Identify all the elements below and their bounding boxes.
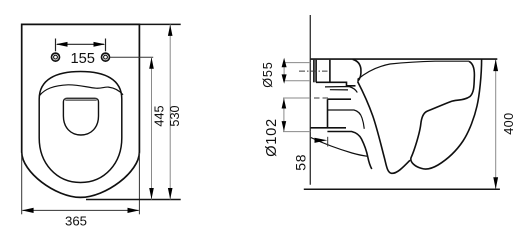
inlet boss inner vertical (329, 60, 331, 83)
dimension 155 (hole spacing) (56, 39, 106, 52)
svg-text:Ø102: Ø102 (264, 118, 280, 157)
mounting hole right (102, 53, 110, 61)
svg-text:58: 58 (292, 154, 308, 171)
seat lower edge line (357, 61, 469, 79)
dimension 58 (315, 137, 328, 147)
ceramic top line + 400 top extension (310, 58, 497, 60)
inlet boss right side / nose (353, 59, 361, 81)
530 top extension line (139, 23, 180, 25)
outlet pipe end vertical (327, 99, 329, 128)
svg-text:365: 365 (65, 214, 87, 229)
inner curve: seat bulge, pedestal, bottom dip, outer back edge (411, 59, 482, 169)
inlet centerline (dash-dot) (299, 70, 328, 72)
sump top shaded band (65, 99, 97, 101)
dimension Ø102 (283, 98, 310, 132)
outlet hidden top edge (dashed) (314, 97, 331, 99)
sump (inner bowl) outline (63, 98, 98, 135)
dimension Ø55 (283, 63, 310, 81)
seat/lid split wavy line (40, 85, 123, 96)
wall line (309, 15, 311, 185)
58 protrusion diagonal (311, 138, 368, 157)
dimension line 400 (495, 60, 497, 189)
inlet boss bottom (316, 82, 356, 86)
dimension line 530 (169, 24, 171, 199)
outlet pipe bottom (310, 127, 346, 129)
bottom extension line (445/530) (86, 199, 181, 201)
445 leader line from right hole (110, 56, 153, 58)
svg-text:155: 155 (70, 51, 95, 67)
mounting hole left (52, 53, 60, 61)
main lower outline: nose drop, trap dip, cusp (358, 82, 410, 174)
dimension line 445 (151, 57, 153, 199)
rim back lines behind nose (325, 87, 357, 93)
svg-text:400: 400 (502, 112, 516, 134)
inlet flange verticals (313, 60, 315, 83)
svg-text:530: 530 (168, 105, 182, 126)
bottom extension line (400) (304, 188, 500, 190)
seat outline (top view) (39, 72, 122, 183)
WC pan top view: outer ceramic outline (22, 24, 140, 197)
svg-text:445: 445 (152, 105, 166, 126)
outlet pipe top edge (328, 98, 352, 100)
outlet boss shelf and S-drop (327, 132, 371, 170)
dimension 365 (width) (22, 153, 140, 214)
outlet inner ledge (328, 110, 364, 129)
svg-text:Ø55: Ø55 (261, 61, 275, 87)
